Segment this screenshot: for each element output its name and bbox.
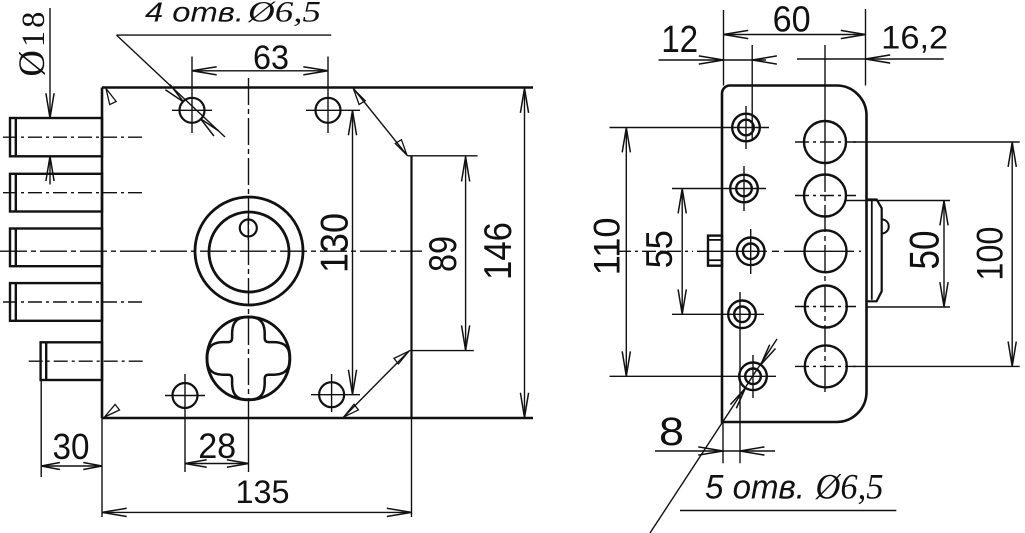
hole row 2 extension line (55) [672, 188, 766, 190]
svg-text:Ø6,5: Ø6,5 [247, 0, 321, 29]
hole row 5 extension line (110) [610, 375, 777, 377]
svg-text:60: 60 [773, 0, 811, 40]
dimension 130 [352, 110, 354, 394]
bolt 5 center line [29, 360, 147, 362]
dimension 60 [723, 10, 725, 86]
deadbolt 1 (side view) [10, 118, 102, 156]
dimension 135 [102, 511, 412, 513]
svg-text:100: 100 [970, 227, 1011, 281]
lock body outline (front view) [102, 86, 533, 89]
bolt 2 center line [3, 192, 144, 194]
bolt 4 center line [3, 301, 144, 303]
svg-text:12: 12 [661, 19, 698, 61]
svg-text:110: 110 [586, 217, 627, 275]
mounting hole top-left [180, 98, 205, 123]
cylinder outer circle [195, 197, 303, 305]
svg-text:Ø18: Ø18 [11, 9, 52, 77]
large hole 2 [804, 175, 846, 217]
bolt guide protrusion side view [867, 200, 882, 302]
screw bump on protrusion [882, 219, 889, 233]
countersunk hole 4 [728, 301, 756, 329]
svg-text:30: 30 [53, 426, 90, 467]
dimension 8 [722, 422, 724, 463]
svg-text:55: 55 [639, 230, 680, 268]
dimension 55 [681, 189, 683, 315]
deadbolt 3 (side view) [10, 229, 102, 267]
jogged break line bottom-right [343, 351, 409, 418]
jogged break line top-right [353, 88, 408, 156]
break flag top-left corner [106, 89, 116, 105]
svg-text:50: 50 [901, 231, 948, 270]
svg-text:146: 146 [477, 222, 520, 280]
dimension 16,2 [797, 58, 944, 60]
svg-text:130: 130 [314, 213, 357, 273]
break flag bottom-left corner [105, 404, 120, 417]
bolt 1 center line [3, 136, 144, 138]
svg-text:135: 135 [236, 474, 290, 510]
svg-text:16,2: 16,2 [881, 20, 948, 56]
large hole column center line [824, 45, 826, 165]
cylinder housing side view [708, 236, 722, 266]
hole row 4 extension line (55) [672, 313, 764, 315]
dimension 63 [192, 70, 328, 72]
svg-text:5 отв.: 5 отв. [705, 468, 805, 506]
main horizontal axis (left view) [0, 250, 422, 252]
faceplate outline (side view) [722, 86, 867, 423]
dimension 110 [625, 128, 627, 377]
extension of body left edge down [101, 418, 103, 517]
hole 5 offset extension line (12) [751, 45, 753, 140]
crosshair bottom-right hole [311, 394, 360, 396]
svg-text:28: 28 [198, 427, 236, 466]
dimension 146 [524, 88, 526, 418]
deadbolt 5 (side view) [41, 342, 102, 380]
leader to top-left hole [117, 35, 226, 137]
thumb-turn four-lobe rosette [207, 317, 289, 399]
hole column extension line (8) [739, 292, 741, 463]
extension line for 89 top [408, 155, 478, 157]
vertical center line of body [248, 78, 250, 415]
mounting hole bottom-left [173, 383, 198, 408]
large hole 1 [804, 121, 846, 163]
large hole 4 [805, 286, 847, 328]
diameter 18 leader and label [49, 8, 51, 118]
svg-text:63: 63 [253, 39, 289, 77]
crosshairs of countersunk holes [745, 106, 747, 149]
mounting hole top-right [316, 98, 341, 123]
svg-text:Ø6,5: Ø6,5 [815, 466, 884, 506]
extension line for 89 bottom [409, 350, 473, 352]
vertical center line extension down [248, 415, 250, 472]
large hole 3 [805, 230, 847, 272]
svg-text:8: 8 [659, 410, 684, 454]
countersunk hole 3 [737, 238, 765, 266]
hole row 1 extension line (110) [610, 127, 770, 129]
leader to countersunk hole 5 [650, 339, 777, 533]
dimension 28 [185, 463, 249, 465]
large hole center lines horizontal [795, 141, 856, 143]
deadbolt 4 (side view) [10, 283, 102, 321]
dimension 100 [853, 141, 1020, 143]
deadbolt 2 (side view) [10, 174, 102, 212]
countersunk hole 5 [739, 363, 767, 391]
cylinder inner circle [209, 212, 289, 292]
countersunk hole 1 [732, 114, 760, 142]
main horizontal axis (right view) [617, 250, 693, 252]
crosshair bottom-left hole [165, 395, 205, 397]
dimension 89 [465, 157, 467, 351]
key pin circle [240, 220, 257, 237]
thumb-turn knob circle [207, 317, 290, 400]
extension of body right edge down [411, 418, 413, 517]
dimension 50 [845, 200, 950, 202]
mounting hole bottom-right [319, 382, 344, 407]
svg-text:89: 89 [422, 236, 465, 272]
large hole 5 [805, 345, 847, 387]
svg-text:4 отв.: 4 отв. [145, 0, 244, 28]
dimension 30 [40, 381, 42, 477]
countersunk hole 2 [730, 175, 758, 203]
crosshair top-left hole [172, 109, 212, 111]
crosshair top-right hole [306, 109, 360, 111]
dimension 12 [659, 59, 767, 61]
